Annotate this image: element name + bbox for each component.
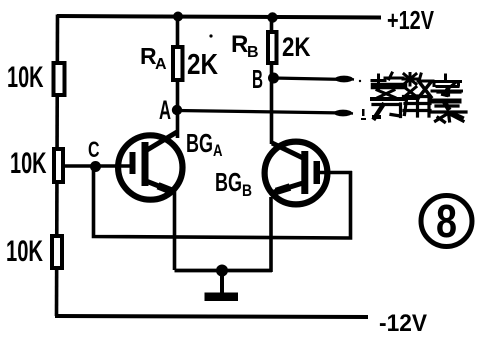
label BGA — [186, 128, 223, 160]
char jie — [372, 73, 403, 88]
label -12V — [379, 310, 427, 337]
junction dot emitter/ground — [216, 265, 228, 277]
speck noise — [209, 34, 366, 120]
node C dot — [90, 161, 101, 172]
wire: left divider vertical — [57, 15, 58, 317]
wire: base line from divider tap to node C and BGA base — [64, 164, 131, 168]
junction dot top rail / RB — [267, 12, 277, 22]
label BGB — [215, 167, 252, 200]
label 10K (R1 value) — [7, 61, 44, 94]
label RA — [140, 43, 167, 73]
label RB — [231, 31, 259, 61]
label C (node) — [88, 137, 100, 162]
svg-text:B: B — [247, 44, 259, 61]
ground — [205, 270, 239, 301]
char shu — [403, 74, 417, 86]
circled figure number 8 — [421, 195, 472, 247]
svg-text:BG: BG — [215, 167, 242, 197]
wire: cross-coupling C down, across, up to BGB base — [94, 166, 351, 238]
svg-text:+12V: +12V — [387, 5, 434, 35]
svg-text:2K: 2K — [187, 49, 218, 81]
wire: node B down to BGB collector — [270, 78, 274, 144]
wire: BGB base lead to right — [320, 171, 352, 175]
junction dot top rail / RA — [173, 12, 183, 22]
wire: -12V bottom rail — [55, 316, 368, 317]
node A dot — [172, 105, 182, 115]
svg-text:2K: 2K — [282, 32, 311, 62]
svg-text:A: A — [213, 141, 223, 160]
label +12V — [387, 5, 434, 35]
svg-text:-12V: -12V — [379, 310, 427, 337]
resistor RB 2K — [268, 32, 277, 63]
svg-text:10K: 10K — [10, 147, 47, 180]
node B dot — [268, 73, 279, 84]
resistor R1 10K — [54, 63, 65, 95]
svg-text:10K: 10K — [6, 235, 43, 268]
resistor R3 10K — [52, 236, 62, 268]
svg-text:BG: BG — [186, 128, 213, 158]
label 10K (R2 value) — [10, 147, 47, 180]
svg-text:10K: 10K — [7, 61, 44, 94]
wire: BGA emitter down — [173, 191, 177, 270]
wire: node A to meter (with arrow) — [177, 110, 353, 117]
transistor BGB — [265, 142, 328, 205]
wire: RB branch from rail to node B — [270, 17, 274, 80]
svg-text:B: B — [252, 64, 263, 94]
annotation: Chinese text line 1 (jie shu zi) — [372, 73, 462, 100]
char yong — [404, 96, 431, 116]
wire: common emitter line — [175, 269, 273, 273]
resistor RA 2K — [173, 47, 183, 80]
char wan — [372, 97, 403, 101]
svg-text:A: A — [159, 95, 171, 125]
annotation: Chinese text line 2 (wan yong biao) — [372, 90, 466, 122]
wire: BGB emitter down — [269, 197, 273, 272]
label 2K (RB value) — [282, 32, 311, 62]
wire: RA branch from rail to node A — [176, 16, 180, 112]
svg-text:A: A — [155, 56, 167, 73]
wire: node B to meter (with arrow) — [273, 76, 354, 83]
label 2K (RA value) — [187, 49, 218, 81]
svg-text:R: R — [231, 31, 248, 58]
wire: node A down to BGA collector — [176, 110, 180, 138]
label A (node) — [159, 95, 171, 125]
char biao — [432, 90, 466, 112]
char zi — [433, 75, 461, 86]
resistor R2 10K — [54, 149, 63, 182]
label 10K (R3 value) — [6, 235, 43, 268]
label B (node) — [252, 64, 263, 94]
wire: +12V top rail — [57, 16, 381, 18]
transistor BGA — [118, 132, 182, 200]
svg-text:C: C — [88, 137, 100, 162]
svg-text:B: B — [242, 181, 252, 200]
svg-text:8: 8 — [436, 195, 457, 247]
